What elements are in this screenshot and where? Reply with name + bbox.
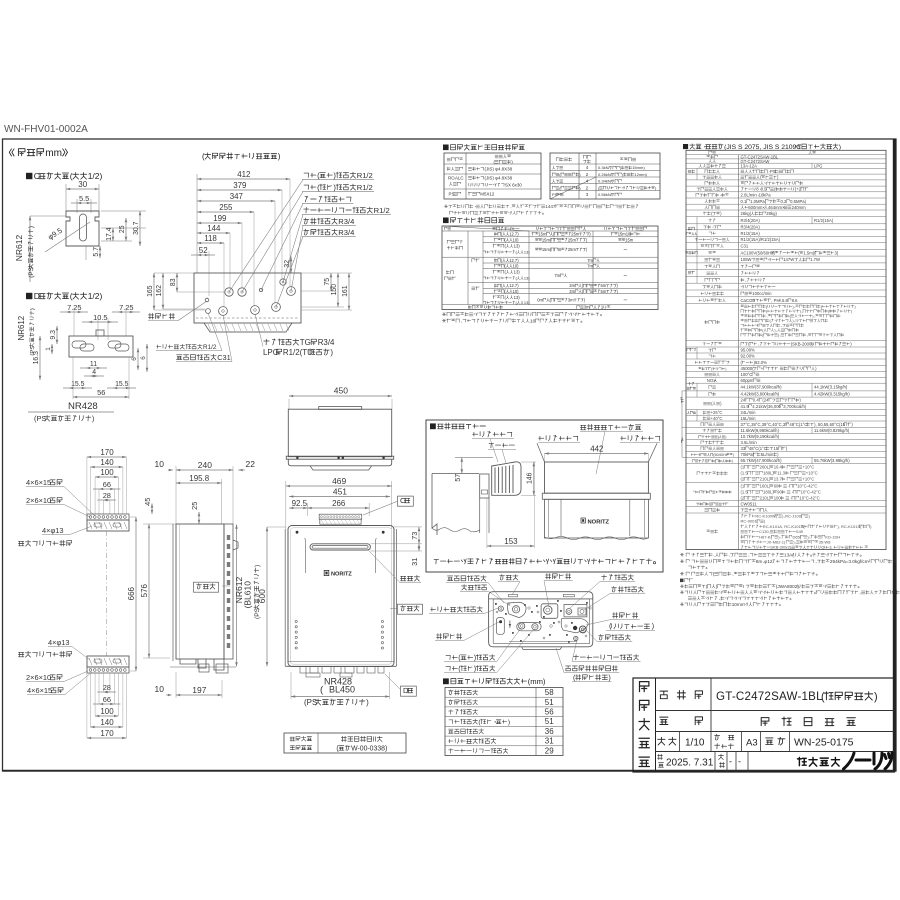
svg-text:15: 15: [774, 446, 779, 451]
svg-text:260L): 260L): [760, 465, 771, 470]
svg-text:15m10: 15m10: [618, 232, 631, 237]
svg-text:153: 153: [504, 537, 518, 546]
svg-text:31: 31: [410, 558, 419, 566]
svg-text:32: 32: [284, 260, 291, 268]
svg-text:R1/2(TU: R1/2(TU: [283, 348, 313, 357]
svg-text:R1/2: R1/2: [203, 344, 217, 351]
svg-text:NR612: NR612: [14, 235, 24, 262]
svg-text:15m: 15m: [625, 237, 634, 242]
svg-text:576: 576: [140, 583, 149, 597]
svg-text:AC100V(50/60Hz): AC100V(50/60Hz): [741, 250, 776, 255]
svg-text:6: 6: [140, 356, 147, 360]
svg-text:451: 451: [333, 487, 347, 497]
svg-text:+10°C: +10°C: [802, 465, 814, 470]
svg-text:)92.0%: )92.0%: [754, 360, 768, 365]
svg-text:17.4: 17.4: [106, 227, 113, 241]
svg-text:TG: TG: [300, 338, 311, 347]
front view: [286, 485, 392, 487]
svg-text:140: 140: [100, 718, 114, 727]
mizunuki label: [149, 313, 175, 319]
svg-text:PS: PS: [449, 192, 455, 197]
top view right dims: [290, 256, 292, 273]
svg-text:W-00-0338): W-00-0338): [351, 746, 387, 753]
svg-text:100°C: 100°C: [741, 372, 753, 377]
top view body: [194, 273, 301, 323]
svg-text:37°C,38°C,39°C,40°C,37: 37°C,38°C,39°C,40°C,37: [741, 422, 789, 427]
svg-text:60: 60: [774, 484, 779, 489]
svg-text:): ): [30, 308, 36, 310]
svg-text:13): 13): [524, 250, 530, 255]
svg-text:(BL610: (BL610: [243, 581, 253, 609]
settings/parts table: [451, 144, 525, 150]
bottom view labels: [448, 576, 487, 582]
svg-text:92.00%: 92.00%: [741, 354, 756, 359]
bottom connection height table: [451, 678, 527, 684]
svg-text:SKB-300(2): SKB-300(2): [770, 545, 792, 550]
svg-text:10: 10: [155, 684, 165, 694]
svg-text:83: 83: [170, 278, 177, 286]
svg-text:13A(: 13A(: [784, 553, 794, 558]
svg-text:22: 22: [246, 459, 256, 469]
svg-text:RC-J100(: RC-J100(: [785, 514, 803, 519]
side hole columns: [295, 620, 297, 622]
svg-text:10°C-42°C: 10°C-42°C: [797, 484, 817, 489]
svg-text:3m: 3m: [569, 283, 575, 288]
svg-text:PS: PS: [552, 192, 558, 197]
svg-text:2×6×10: 2×6×10: [26, 673, 51, 682]
svg-text:CaCO3: CaCO3: [741, 298, 756, 303]
svg-text:29: 29: [545, 746, 554, 755]
svg-text:(1: (1: [741, 465, 745, 470]
svg-text:WN-25-0175: WN-25-0175: [794, 737, 854, 749]
svg-text:15m: 15m: [538, 232, 547, 237]
svg-text:): ): [508, 719, 510, 726]
svg-text:24: 24: [741, 398, 746, 403]
svg-text:(: (: [317, 171, 320, 180]
svg-text:RC-9001(: RC-9001(: [741, 519, 759, 524]
svg-text:7m: 7m: [587, 258, 593, 263]
svg-text:13): 13): [514, 244, 521, 249]
svg-text:255: 255: [219, 203, 233, 212]
svg-text:170: 170: [100, 448, 114, 457]
top view bottom labels: [157, 344, 203, 349]
svg-text:26kg(: 26kg(: [741, 211, 752, 216]
svg-text:): ): [333, 171, 336, 180]
svg-text:56: 56: [97, 388, 105, 397]
svg-text:161: 161: [342, 285, 349, 297]
svg-text:8.6: 8.6: [792, 298, 799, 303]
svg-text:): ): [725, 367, 726, 371]
svg-text:GT-C2472SAW-1BL: GT-C2472SAW-1BL: [716, 690, 823, 703]
svg-text:199: 199: [213, 214, 227, 223]
svg-text:0.56kN/: 0.56kN/: [598, 192, 613, 197]
svg-text:51: 51: [545, 698, 554, 707]
svg-text:70kPa(: 70kPa(: [741, 452, 755, 457]
svg-text:II: II: [373, 737, 377, 744]
svg-text:10: 10: [530, 319, 536, 325]
svg-text:+10°C: +10°C: [806, 471, 818, 476]
svg-text:4.42kW(0.315kg/h): 4.42kW(0.315kg/h): [814, 392, 850, 397]
svg-text:-: -: [738, 757, 741, 767]
svg-text:450: 450: [334, 386, 348, 396]
svg-text:): ): [333, 183, 336, 192]
svg-text:), 50,55,60°C(15: ), 50,55,60°C(15: [814, 422, 846, 427]
svg-text:): ): [474, 653, 476, 662]
svg-text:(mm): (mm): [528, 677, 546, 686]
svg-text:25: 25: [190, 502, 199, 510]
73/31 dims: [394, 526, 422, 528]
svg-text:11: 11: [90, 361, 97, 368]
svg-text:2×6×10: 2×6×10: [26, 496, 51, 505]
svg-text:+25°C: +25°C: [711, 410, 723, 415]
svg-text:7.25: 7.25: [67, 303, 81, 312]
svg-text:mm: mm: [45, 148, 62, 159]
svg-text:144: 144: [207, 224, 221, 233]
svg-text:1/2): 1/2): [88, 171, 103, 181]
svg-text:4×6×15: 4×6×15: [27, 686, 52, 695]
svg-text:12.7): 12.7): [509, 283, 519, 288]
svg-text:(24: (24: [762, 398, 769, 403]
svg-text:162: 162: [156, 285, 163, 297]
svg-text:25: 25: [119, 225, 126, 233]
svg-text:0.34kN/: 0.34kN/: [598, 179, 613, 184]
svg-text:28kg): 28kg): [766, 211, 777, 216]
front body: [284, 529, 286, 666]
svg-text:2.0L/min: 2.0L/min: [741, 193, 758, 198]
svg-text:92.5: 92.5: [292, 499, 308, 508]
svg-text:R3/4: R3/4: [338, 217, 355, 226]
svg-text:3): 3): [835, 250, 839, 255]
svg-text:25m: 25m: [568, 237, 577, 242]
svg-text:RC-K100W(: RC-K100W(: [755, 514, 777, 519]
svg-text:10°C-42°C: 10°C-42°C: [799, 496, 819, 501]
top view port labels: [304, 172, 356, 178]
svg-text:D: D: [403, 686, 408, 695]
svg-text:φ12: φ12: [764, 559, 773, 564]
svg-text:11.6kW(0.829kg/h): 11.6kW(0.829kg/h): [814, 428, 850, 433]
Noritz logo: [798, 758, 807, 766]
svg-text:30.7: 30.7: [133, 221, 140, 235]
bottom view figure: [489, 592, 593, 647]
svg-text:180L): 180L): [763, 471, 774, 476]
svg-text:(: (: [70, 171, 73, 181]
svg-text:66: 66: [103, 695, 111, 704]
svg-text:NORITZ: NORITZ: [588, 519, 610, 525]
svg-text:): ): [278, 152, 281, 161]
svg-text:R1/2(15A): R1/2(15A): [741, 231, 761, 236]
svg-text:CW0511: CW0511: [741, 501, 758, 506]
spec table right column: [690, 144, 838, 149]
svg-text:): ): [874, 691, 878, 703]
svg-text:): ): [28, 226, 35, 228]
svg-text:5.8: 5.8: [782, 298, 789, 303]
unit top-of-casing view (450): [289, 395, 392, 397]
svg-text:100cc/min: 100cc/min: [752, 291, 772, 296]
notes below spec table: [680, 553, 859, 557]
svg-text:5L/min: 5L/min: [761, 452, 774, 457]
top view dimension ladder: [196, 174, 198, 273]
svg-text:C: C: [400, 496, 406, 505]
left cover figure: [432, 473, 479, 475]
svg-text:51: 51: [545, 717, 554, 726]
svg-text:48°C(1°C: 48°C(1°C: [789, 422, 807, 427]
svg-text:R3/4(20A): R3/4(20A): [741, 218, 761, 223]
svg-text:195.8: 195.8: [189, 474, 209, 483]
svg-text:44.1kW(3.15kg/h): 44.1kW(3.15kg/h): [814, 385, 848, 390]
svg-text:30: 30: [78, 180, 87, 189]
svg-text:13): 13): [524, 300, 530, 305]
svg-text:10): 10): [513, 264, 520, 269]
svg-text:57: 57: [455, 474, 462, 482]
svg-text:0.1: 0.1: [741, 199, 748, 204]
svg-text:55.7kW(47,900kcal/h): 55.7kW(47,900kcal/h): [741, 458, 783, 463]
svg-text:(1.5: (1.5: [741, 490, 749, 495]
svg-text:25m: 25m: [571, 232, 580, 237]
svg-text:36: 36: [545, 727, 554, 736]
svg-text:WN-FHV01-0002A: WN-FHV01-0002A: [4, 124, 88, 135]
C-detail drawing: [39, 173, 87, 180]
svg-text:(JWA8002): (JWA8002): [776, 584, 800, 589]
top perspective view title: [205, 153, 277, 159]
svg-text:0.26kN/: 0.26kN/: [598, 172, 613, 177]
svg-text:24L/min: 24L/min: [741, 410, 757, 415]
svg-text:1447: 1447: [545, 204, 556, 209]
svg-text:7m: 7m: [554, 273, 560, 278]
svg-text:C31: C31: [217, 353, 231, 362]
svg-text:210L): 210L): [760, 496, 771, 501]
left bottom bracket strips: [87, 456, 127, 458]
svg-text:SX 6x30: SX 6x30: [505, 183, 522, 188]
svg-text:10: 10: [155, 459, 165, 469]
svg-text:R1/2: R1/2: [374, 206, 390, 215]
svg-text:(2: (2: [741, 477, 745, 482]
svg-text:75: 75: [324, 278, 331, 286]
svg-text:(PS: (PS: [34, 414, 46, 423]
svg-text:0m: 0m: [537, 298, 543, 303]
svg-text:44.1kW(37,900kcal/h): 44.1kW(37,900kcal/h): [741, 385, 783, 390]
applicable frame table: [284, 733, 406, 753]
svg-text:R3/4(20A): R3/4(20A): [741, 225, 761, 230]
svg-text:1.5m)(: 1.5m)(: [803, 250, 816, 255]
svg-text:R1/2(15A)/R1/2(15A): R1/2(15A)/R1/2(15A): [741, 237, 781, 242]
side view: [176, 469, 233, 471]
top view left dims: [154, 272, 194, 274]
svg-text:13.7: 13.7: [774, 477, 783, 482]
svg-text:15.5: 15.5: [115, 381, 129, 388]
svg-text:NOx: NOx: [707, 378, 716, 383]
svg-text:28: 28: [103, 491, 111, 500]
svg-text:): ): [254, 565, 261, 567]
svg-text:): ): [92, 414, 94, 423]
svg-text:240mm: 240mm: [792, 205, 807, 210]
svg-text:180L): 180L): [763, 490, 774, 495]
svg-text:BL450: BL450: [329, 685, 355, 695]
svg-text:13): 13): [514, 270, 521, 275]
svg-text:197: 197: [192, 685, 206, 695]
svg-text:(1.5: (1.5: [741, 471, 749, 476]
svg-text:150: 150: [331, 284, 338, 296]
svg-text:3m: 3m: [584, 305, 590, 310]
svg-text:146: 146: [527, 472, 534, 484]
svg-text:105W: 105W: [741, 257, 752, 262]
svg-text:NR612: NR612: [17, 315, 26, 340]
svg-text:4.21kW(36,000: 4.21kW(36,000: [752, 404, 781, 409]
top view ports: [225, 288, 233, 296]
svg-text:73: 73: [410, 532, 419, 540]
svg-text:4×6×15: 4×6×15: [26, 478, 51, 487]
svg-text:15m(: 15m(: [542, 237, 552, 242]
svg-text:442: 442: [590, 445, 604, 454]
svg-text:210L): 210L): [760, 477, 771, 482]
svg-text:118: 118: [204, 234, 217, 243]
svg-text:LPG: LPG: [263, 348, 279, 357]
svg-text:10): 10): [513, 237, 520, 242]
svg-text:8m: 8m: [756, 559, 763, 564]
svg-text:, PH: , PH: [771, 298, 779, 303]
svg-text:1: 1: [45, 347, 52, 351]
svg-text:): ): [474, 664, 476, 673]
svg-text:31: 31: [545, 737, 554, 746]
svg-text:58: 58: [545, 688, 554, 697]
svg-text:10.5: 10.5: [93, 313, 107, 322]
svg-text:C31: C31: [741, 244, 749, 249]
svg-text:3.5L/min: 3.5L/min: [741, 440, 758, 445]
svg-text:41.9: 41.9: [741, 404, 750, 409]
svg-text:11.3: 11.3: [777, 471, 786, 476]
svg-text:25m: 25m: [568, 247, 577, 252]
svg-text:140: 140: [100, 458, 114, 467]
svg-text:66: 66: [103, 480, 111, 489]
svg-text:R1/2: R1/2: [357, 171, 373, 180]
svg-text:13A: 13A: [741, 164, 749, 169]
reheating piping table: [451, 217, 504, 223]
front bottom fittings: [288, 661, 394, 663]
svg-text:379: 379: [233, 181, 247, 190]
svg-text:3,: 3,: [829, 545, 832, 550]
svg-text:): ): [330, 348, 333, 357]
svg-text:28: 28: [103, 683, 111, 692]
svg-text:5m: 5m: [601, 283, 607, 288]
svg-text:10.4: 10.4: [774, 465, 783, 470]
svg-text:R1/2: R1/2: [357, 183, 373, 192]
svg-text:): ): [608, 673, 610, 682]
svg-text:8.5: 8.5: [761, 187, 768, 192]
svg-text:0.2: 0.2: [781, 199, 788, 204]
svg-text:52: 52: [199, 246, 208, 255]
svg-text:7.25: 7.25: [119, 303, 133, 312]
svg-text:0.3kN/: 0.3kN/: [598, 165, 610, 170]
svg-text:10): 10): [513, 289, 520, 294]
svg-text:33: 33: [741, 446, 746, 451]
svg-text:): ): [732, 459, 733, 463]
svg-text:9.3: 9.3: [50, 330, 57, 340]
svg-text:(PS: (PS: [28, 267, 35, 278]
svg-text:347: 347: [230, 192, 244, 201]
svg-text:3m: 3m: [569, 289, 575, 294]
svg-text:45: 45: [143, 498, 152, 506]
svg-text:1/2): 1/2): [88, 291, 103, 301]
svg-text:10kPa: 10kPa: [759, 193, 772, 198]
svg-text:4: 4: [92, 369, 96, 376]
svg-text:LPG: LPG: [814, 164, 822, 169]
svg-text:5m: 5m: [601, 289, 607, 294]
svg-text:7m: 7m: [587, 264, 593, 269]
svg-text:165: 165: [147, 285, 154, 297]
svg-text:12A: 12A: [749, 164, 757, 169]
svg-text:15m(: 15m(: [542, 247, 552, 252]
svg-text:10mm: 10mm: [732, 602, 745, 607]
svg-text:55.76kW(3.98kg/h): 55.76kW(3.98kg/h): [814, 458, 850, 463]
svg-text:NR428: NR428: [68, 401, 98, 412]
svg-text:0.5MPa): 0.5MPa): [790, 199, 807, 204]
svg-text:(PS: (PS: [254, 607, 261, 619]
svg-text:M5X12: M5X12: [480, 192, 495, 197]
svg-text:(: (: [202, 152, 205, 161]
svg-text:600mm×: 600mm×: [748, 205, 765, 210]
svg-text:160L): 160L): [760, 484, 771, 489]
svg-text:12.7): 12.7): [509, 232, 519, 237]
svg-text:412: 412: [237, 170, 251, 179]
right cover figure: [581, 424, 641, 430]
svg-text:100: 100: [774, 496, 782, 501]
svg-text:10.7kW(9,190kcal/h): 10.7kW(9,190kcal/h): [741, 434, 780, 439]
svg-text:666: 666: [127, 586, 136, 600]
svg-text:5.5: 5.5: [79, 194, 89, 203]
svg-text:C: C: [34, 171, 40, 181]
svg-text:): ): [733, 453, 734, 457]
svg-text:+10°C: +10°C: [802, 477, 814, 482]
svg-text:15mm): 15mm): [632, 165, 645, 170]
svg-text:266: 266: [332, 499, 346, 508]
svg-text:ALC: ALC: [455, 176, 464, 181]
svg-text:294kPa=3.0kgf/cm²: 294kPa=3.0kgf/cm²: [830, 559, 871, 564]
svg-text:+40°C: +40°C: [711, 416, 723, 421]
svg-text:240: 240: [198, 460, 212, 470]
svg-text:56: 56: [545, 708, 554, 717]
svg-text:45000(: 45000(: [741, 366, 755, 371]
svg-text:(: (: [317, 183, 320, 192]
svg-text:3m: 3m: [568, 298, 574, 303]
svg-text:R1/2(15A): R1/2(15A): [814, 218, 834, 223]
svg-text:(JIS) φ4.8X38: (JIS) φ4.8X38: [485, 167, 513, 172]
svg-text:(: (: [70, 291, 73, 301]
svg-text:90: 90: [777, 490, 782, 495]
svg-text:(PS: (PS: [304, 698, 317, 707]
svg-text:)+2: )+2: [795, 187, 802, 192]
svg-text:48°C(1°C: 48°C(1°C: [749, 446, 767, 451]
svg-text:-: -: [729, 757, 732, 767]
NORITZ logo front: [324, 570, 329, 575]
svg-text:3,700kcal/h): 3,700kcal/h): [783, 404, 807, 409]
svg-text:A3: A3: [746, 738, 758, 749]
svg-text:(JIS) φ4.8X38: (JIS) φ4.8X38: [485, 176, 513, 181]
svg-text:600: 600: [257, 589, 267, 603]
svg-text:95.00%: 95.00%: [741, 348, 756, 353]
title block: [633, 678, 895, 772]
svg-text:): ): [366, 698, 369, 707]
svg-text:12mm): 12mm): [634, 172, 647, 177]
svg-text:464mm×: 464mm×: [768, 205, 785, 210]
svg-text:(: (: [821, 691, 825, 703]
svg-text:(SKB-2000): (SKB-2000): [791, 341, 814, 346]
svg-text:I: I: [743, 584, 744, 589]
svg-text:11.6kW(9,980kcal/h): 11.6kW(9,980kcal/h): [741, 428, 780, 433]
svg-text:4×φ13: 4×φ13: [42, 526, 64, 535]
svg-text:469: 469: [332, 476, 346, 486]
svg-text:(50/60Hz: (50/60Hz: [713, 453, 727, 457]
svg-text:60ppm: 60ppm: [741, 378, 754, 383]
svg-text:PS: PS: [770, 169, 776, 174]
